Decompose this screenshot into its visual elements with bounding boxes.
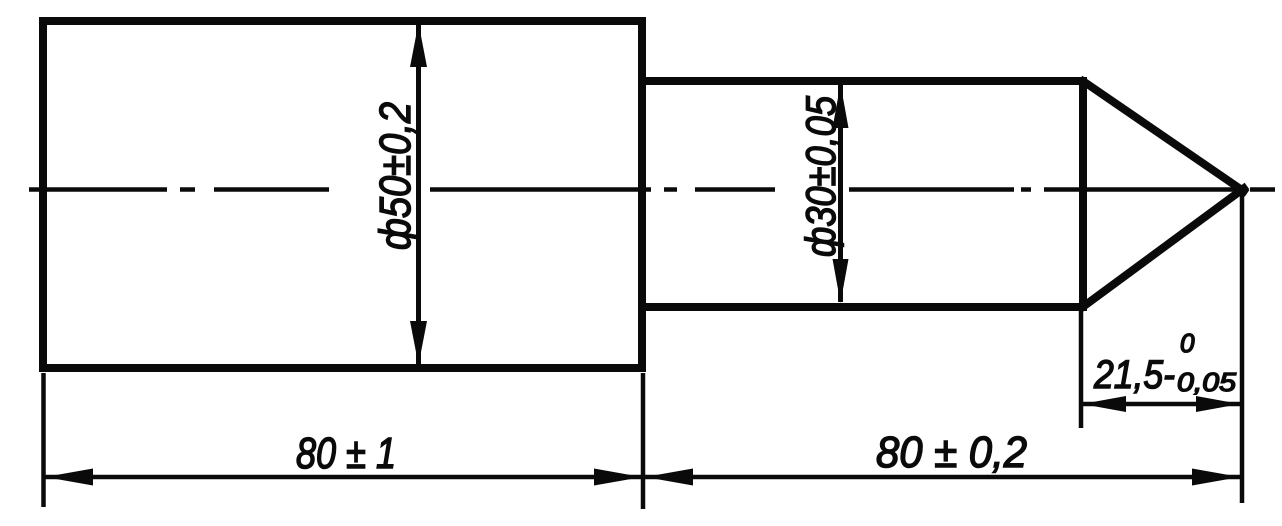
svg-text:80 ± 0,2: 80 ± 0,2 bbox=[876, 428, 1027, 477]
svg-text:80 ± 1: 80 ± 1 bbox=[296, 429, 396, 478]
svg-text:0: 0 bbox=[1180, 328, 1195, 358]
svg-text:0,05: 0,05 bbox=[1177, 367, 1237, 397]
svg-text:21,5-: 21,5- bbox=[1093, 353, 1175, 397]
svg-text:ф50±0,2: ф50±0,2 bbox=[371, 102, 420, 250]
svg-text:ф30±0,05: ф30±0,05 bbox=[797, 95, 844, 257]
